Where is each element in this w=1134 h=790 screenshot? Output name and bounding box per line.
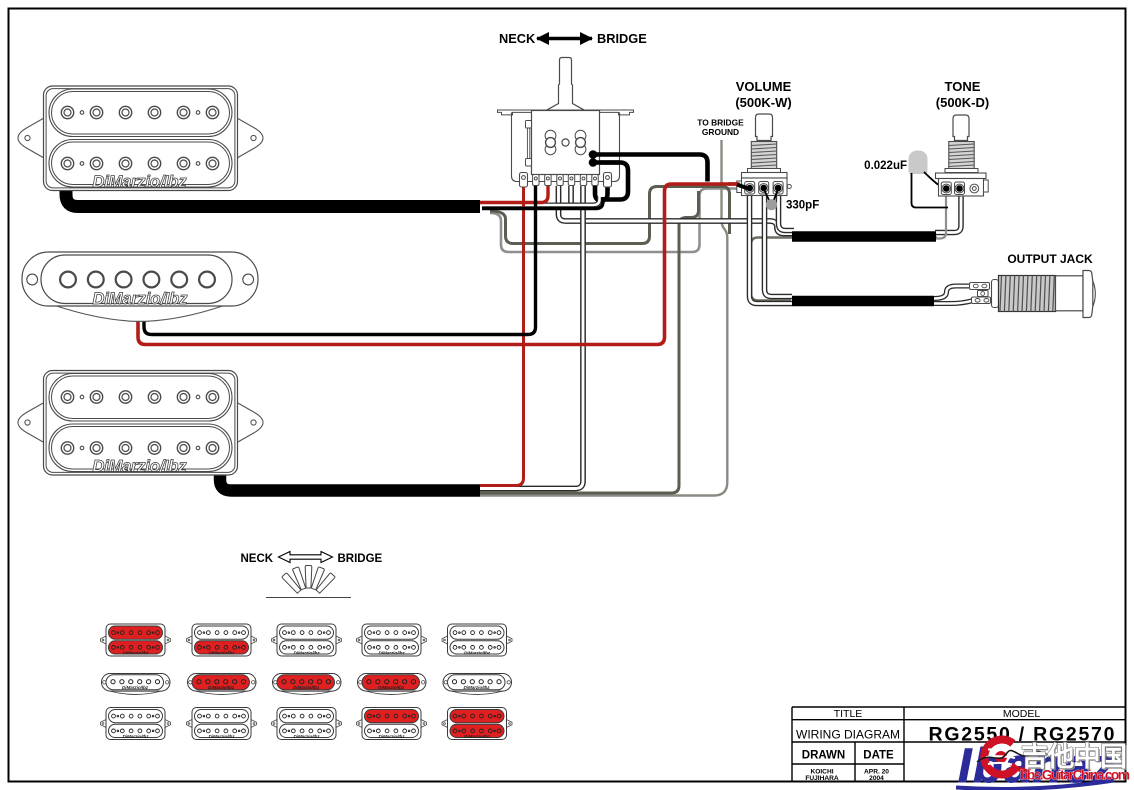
volume lug 3 [773,182,783,195]
capacitor 330pF leads [764,189,778,201]
wire: green from bridge pickup cable up to ground [480,191,699,493]
svg-text:TITLE: TITLE [834,708,863,720]
switch lug 4 [557,175,563,186]
solder dots volume lugs [746,185,753,192]
legend outline arrow [279,552,333,563]
svg-text:DRAWN: DRAWN [802,750,845,762]
switch mounting plate [498,110,634,115]
wire: white from switch lug 6 down to bridge cable [480,186,583,489]
wire: thick black from switch lower contact dot around to lug 8 [596,163,628,200]
wire: green from tone shielded cable down to output jack cable [751,238,937,301]
switch lug 5 [568,175,574,186]
output jack [970,271,1096,318]
svg-text:TONE: TONE [945,79,981,94]
watermark: GuitarChina red G logo [977,740,1052,775]
jack sleeve lug [972,297,991,304]
5-way switch [498,58,634,188]
svg-text:0.022uF: 0.022uF [864,160,907,172]
wire: red from switch lug 1 down to bridge cable [480,186,524,486]
svg-text:(500K-D): (500K-D) [936,95,989,110]
wire: black from single coil to switch lug 2 [144,186,536,335]
svg-text:OUTPUT JACK: OUTPUT JACK [1007,252,1093,266]
wire: gray lead from tone lug 1 to shielded cable [935,193,946,239]
svg-text:WIRING DIAGRAM: WIRING DIAGRAM [796,728,900,742]
wire: thick black stub from lower contact dot [593,160,620,165]
tone lug 2 [955,182,965,195]
legend pickup grid row 3 (bridge humbucker states) [101,708,171,740]
wire: thick black from switch upper contact dot to volume lug 1 [593,155,708,182]
switch lug 3 [545,175,551,186]
jack flange [1083,271,1093,318]
volume pot [728,114,791,196]
switch lug 8 [604,173,612,188]
switch inner body [532,111,600,175]
wire: white from tone lug 2 to shielded cable [935,193,961,233]
switch lug 2 [533,175,539,186]
svg-text:TO BRIDGE: TO BRIDGE [697,118,744,128]
svg-text:GROUND: GROUND [702,127,739,137]
legend pickup grid row 1 (neck humbucker states) [101,624,171,656]
wire: white stub from switch lug 5 [568,186,574,207]
jack middle lug [978,291,989,297]
legend: 5-way switch lever positions fan [282,566,336,594]
svg-text:DATE: DATE [863,750,894,762]
switch lever shaft [547,58,585,111]
switch center pivot [562,139,569,146]
solder dot: switch lower contact [589,158,598,167]
volume lug 2 [759,182,769,195]
wire: red from neck cable to switch lug 3 [480,186,548,203]
switch outer frame [512,112,620,181]
arrow: double headed [537,37,592,41]
svg-text:NECK: NECK [241,553,274,565]
svg-text:330pF: 330pF [786,200,819,212]
svg-text:NECK: NECK [499,31,536,46]
switch contact rotor right [575,130,586,154]
switch lug 1 [520,173,528,188]
wire: white leads from output cable to jack lugs [934,286,972,304]
svg-text:BRIDGE: BRIDGE [338,553,383,565]
bridge humbucker pickup [18,371,263,476]
tone lug 3 open [970,184,979,193]
tone lug 1 [941,182,951,195]
title block table [792,707,1125,781]
switch spring details [526,121,532,129]
wire: red from single coil up to volume lug 1 [138,184,739,345]
wire: white from volume lug 2 to output jack cable [765,191,793,297]
wire: white from switch lug 4 to tone shielded cable [559,186,795,234]
wire: white from volume lug 3 to tone shielded cable [779,191,795,231]
Ibanez logo [956,740,1116,790]
svg-text:DiMarzio/Ibz: DiMarzio/Ibz [93,290,189,308]
jack threaded barrel [999,276,1056,312]
wire: black from neck cable to switch ground lugs [482,197,603,209]
jack tip lug [970,283,990,290]
neck humbucker pickup [18,86,263,191]
jack smooth barrel [1056,276,1084,311]
wire: thick black U joining switch lugs 7-8 [595,176,608,201]
capacitor 0.022uF [909,151,928,175]
volume lug 1 [745,182,755,195]
svg-text:(500K-W): (500K-W) [735,95,791,110]
svg-text:MODEL: MODEL [1003,708,1041,720]
svg-text:bbs.GuitarChina.com: bbs.GuitarChina.com [1020,768,1130,783]
solder dot: switch upper contact [589,150,598,159]
switch lug 6 [580,175,586,186]
legend pickup grid row 2 (middle single coil states) [102,674,171,695]
capacitor 330pF [766,199,777,210]
jack back ring [992,280,999,308]
middle single coil pickup [22,252,258,321]
wire: bridge ground gray from volume down to bridge cable [480,140,727,496]
switch contact rotor left [545,130,556,154]
svg-text:BRIDGE: BRIDGE [597,31,647,46]
solder dots tone lugs [943,185,950,192]
wire: red end over pot tab and black fork to volume lug 1 [728,182,740,186]
capacitor 0.022uF leads [924,172,946,188]
shielded cable: volume to tone [792,231,936,242]
switch lug 7 [592,175,598,186]
wire: white from neck cable to switch ground lugs [482,197,600,205]
shielded cable: bridge pickup [220,472,480,491]
shielded cable: neck pickup [66,188,480,207]
wire: bare ground bus from neck cable to volume casing [490,189,742,253]
shielded cable: volume to output jack [792,296,934,307]
tone pot [936,115,989,196]
svg-text:VOLUME: VOLUME [736,79,792,94]
wire: green from neck pickup cable to ground bus [490,187,730,244]
wire: white from volume lug 1 to output jack cable [750,191,793,304]
